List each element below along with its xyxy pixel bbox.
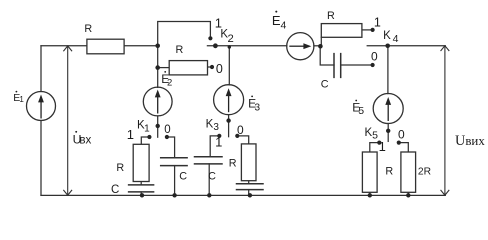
wire node A down to E2 <box>157 46 159 88</box>
svg-text:1: 1 <box>374 16 381 30</box>
wire E4 to node C <box>314 45 321 47</box>
source E5 circle <box>373 94 403 124</box>
K5 pivot dot <box>386 129 390 133</box>
source E4 circle <box>287 33 314 60</box>
svg-text:Uвих: Uвих <box>455 133 485 149</box>
svg-text:K: K <box>383 30 391 42</box>
Uvx measure arrow <box>67 47 69 195</box>
capacitor C of K3 branch 1 plates <box>195 157 223 164</box>
wire C4 right lead <box>341 64 371 66</box>
svg-text:2: 2 <box>167 77 172 88</box>
svg-text:0: 0 <box>216 62 223 76</box>
wire R5 bottom lead <box>369 192 371 195</box>
wire K3 contact0 lead <box>237 136 248 144</box>
wire R2 left lead <box>158 67 170 69</box>
svg-text:K: K <box>206 118 214 130</box>
arrow inside E1 <box>40 101 41 119</box>
rail dot below K1 R <box>140 193 144 197</box>
wire K5 contact0 lead <box>399 143 409 152</box>
svg-text:R: R <box>327 10 335 22</box>
svg-text:C: C <box>208 171 216 183</box>
capacitor below K3 R plates <box>237 184 264 190</box>
E3 top junction dot <box>228 45 231 48</box>
wire C4 left lead <box>320 46 334 65</box>
wire cap to rail K3 <box>248 190 250 196</box>
K4 contact 1 dot <box>371 28 375 32</box>
capacitor C4 plates <box>334 54 341 78</box>
svg-text:0: 0 <box>371 49 378 63</box>
svg-text:C: C <box>179 170 187 182</box>
wire loop over R2 to K2 contact 1 <box>158 22 211 46</box>
svg-text:4: 4 <box>280 20 286 32</box>
resistor R1 <box>87 39 124 54</box>
svg-text:1: 1 <box>144 124 150 135</box>
K4 contact 0 dot <box>371 63 375 67</box>
K5 contact 0 dot <box>397 141 401 145</box>
svg-text:0: 0 <box>398 128 405 142</box>
arrow inside E4 <box>289 46 304 47</box>
svg-text:R: R <box>116 162 124 174</box>
svg-text:1: 1 <box>215 135 222 150</box>
wire R below K3 to cap <box>248 181 250 184</box>
resistor R4 <box>321 24 362 38</box>
wire cap to rail K1 <box>140 192 142 195</box>
resistor R K3 branch <box>241 144 256 181</box>
rail dot below K5 R <box>368 193 372 197</box>
K1 contact 0 dot <box>165 135 169 139</box>
capacitor C of K1 branch 0 plates <box>161 158 187 166</box>
rail dot below K3 R <box>248 193 252 197</box>
K3 pivot dot <box>226 118 230 122</box>
rail dot below 2R <box>406 193 410 197</box>
K3 contact 0 dot <box>235 134 239 138</box>
wire E1 bottom <box>40 121 42 196</box>
wire K3 contact1 lead <box>210 136 219 157</box>
svg-text:3: 3 <box>213 122 219 133</box>
rail dot below K1 C <box>172 193 176 197</box>
K2 contact 0 dot <box>210 65 214 69</box>
wire R below K1 to cap <box>140 182 142 185</box>
K3 contact 1 dot <box>217 134 221 138</box>
arrow inside E2 <box>157 96 158 114</box>
svg-text:0: 0 <box>237 123 244 137</box>
resistor 2R <box>401 152 416 192</box>
node R2-left junction dot <box>155 65 160 70</box>
wire R4 right lead <box>362 29 371 31</box>
svg-text:5: 5 <box>372 130 378 142</box>
wire 2R bottom lead <box>407 192 409 195</box>
Uvyh measure arrow <box>444 46 446 195</box>
wire E3 drop <box>228 46 230 85</box>
wire main top left <box>41 45 87 47</box>
wire K4 blade and to output <box>367 45 445 47</box>
node C junction dot (E4 out) <box>318 44 323 49</box>
svg-text:5: 5 <box>358 105 364 117</box>
wire K1 contact1 lead <box>141 137 149 144</box>
wire K3 branch1 cap to rail <box>208 164 210 196</box>
K5 contact 1 dot <box>377 141 381 145</box>
wire E3 stem to K3 <box>228 115 230 137</box>
svg-text:1: 1 <box>127 127 134 142</box>
wire R1 to node A <box>124 45 158 47</box>
wire K1 contact0 lead <box>167 137 175 158</box>
svg-text:1: 1 <box>379 139 386 154</box>
wire E1 top <box>40 46 42 92</box>
wire E5 drop <box>387 46 389 94</box>
K4 pivot dot <box>385 44 390 49</box>
svg-text:4: 4 <box>393 33 399 45</box>
wire K1 branch0 cap to rail <box>174 166 176 196</box>
K2 contact 1 dot <box>208 36 212 40</box>
svg-text:C: C <box>321 79 329 91</box>
svg-text:C: C <box>111 184 119 196</box>
source E3 circle <box>214 85 244 115</box>
wire E2 stem to K1 <box>157 116 159 137</box>
wire R4 vertical lead <box>320 37 322 46</box>
capacitor C below K1 R plates <box>129 185 154 192</box>
rail dot below K3 C <box>207 193 211 197</box>
svg-text:2: 2 <box>228 33 234 45</box>
svg-text:2R: 2R <box>418 166 431 177</box>
K2 pivot dot <box>213 43 218 48</box>
svg-text:R: R <box>229 157 237 169</box>
resistor R2 <box>169 61 207 75</box>
resistor R K5 branch <box>362 152 377 192</box>
wire R2 right lead <box>208 66 210 68</box>
arrow inside E5 <box>388 104 389 122</box>
source E2 circle <box>143 87 172 116</box>
resistor R K1 branch <box>133 144 149 181</box>
K1 pivot dot <box>156 124 160 128</box>
svg-text:R: R <box>175 44 183 56</box>
svg-text:R: R <box>84 23 92 35</box>
wire K5 contact1 lead <box>370 143 380 152</box>
svg-text:3: 3 <box>255 103 261 114</box>
wire E5 stem to K5 <box>387 124 389 142</box>
K1 contact 1 dot <box>147 135 151 139</box>
svg-text:R: R <box>385 165 393 177</box>
bottom rail <box>41 194 445 196</box>
source E1 circle <box>27 92 56 121</box>
svg-text:0: 0 <box>164 124 170 136</box>
arrow inside E3 <box>228 95 229 113</box>
wire K2 blade and to E4 <box>207 45 287 47</box>
node A junction dot <box>155 44 160 49</box>
svg-text:вх: вх <box>79 133 91 146</box>
svg-text:1: 1 <box>19 95 24 104</box>
